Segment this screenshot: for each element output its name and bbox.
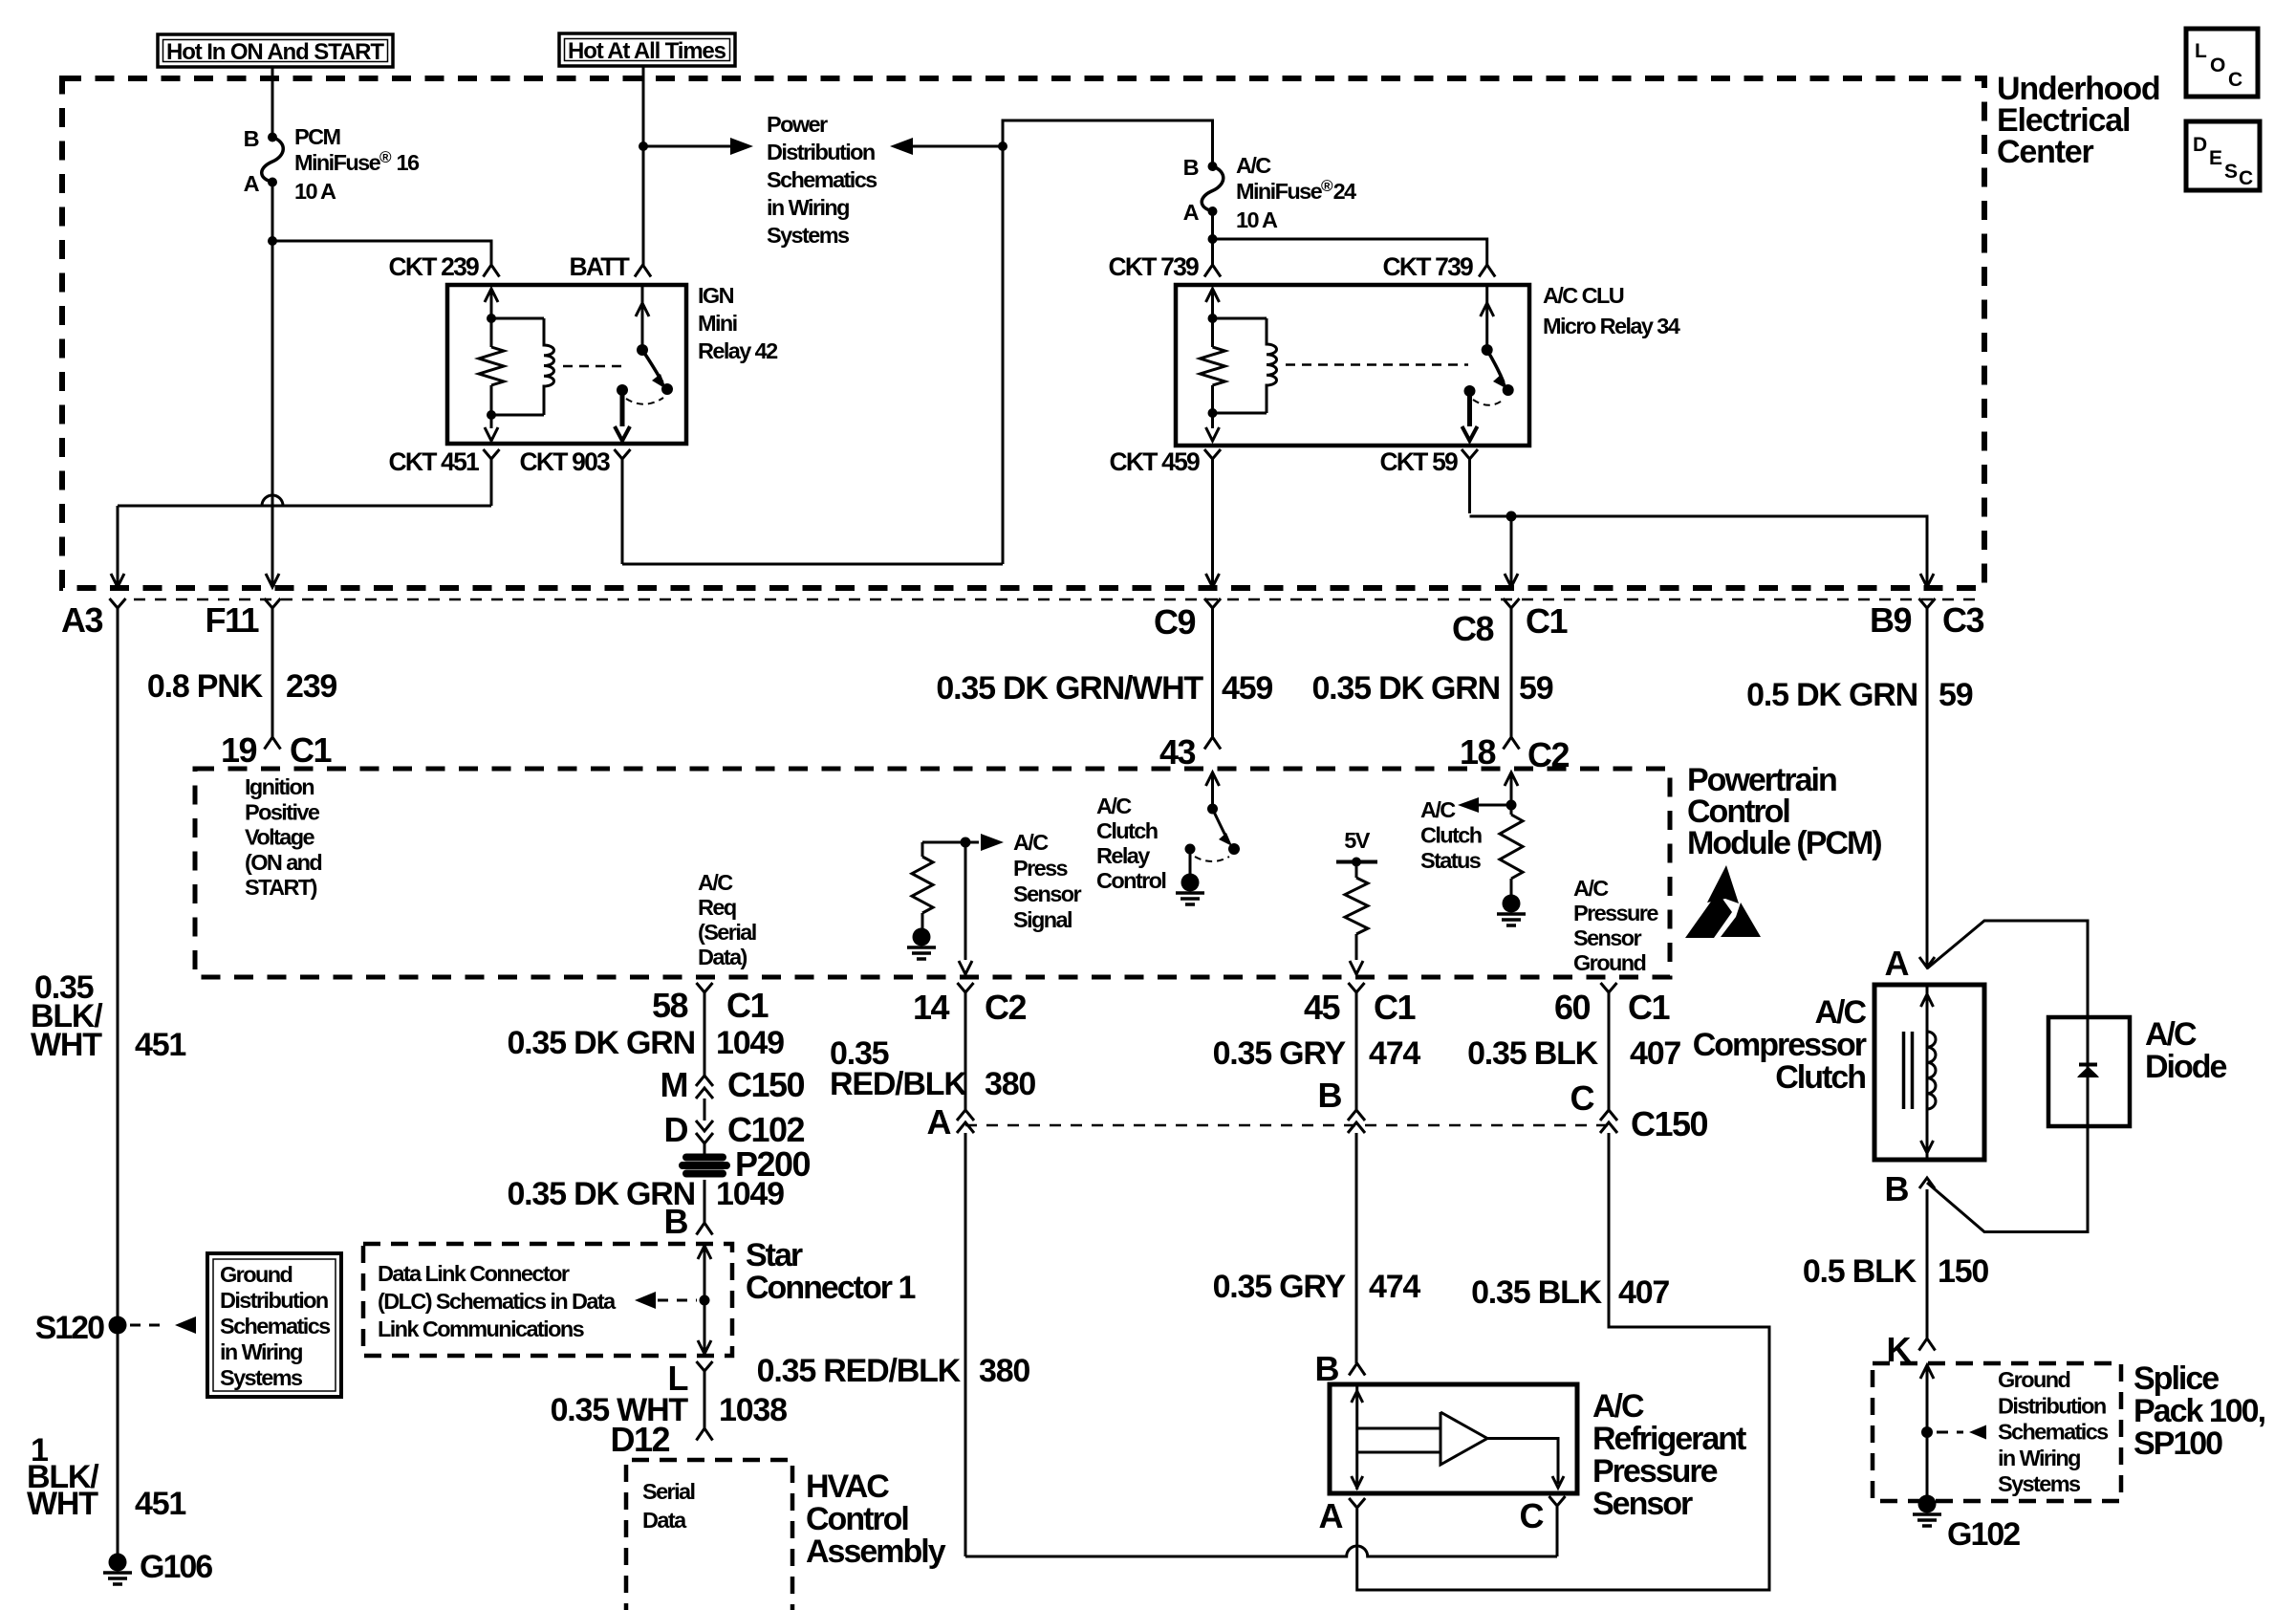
connector: CKT 459 (up-Y) <box>1204 449 1221 459</box>
dashed link: relay42 actuation <box>563 365 623 368</box>
wire: CKT59 across to B9 exit <box>1470 516 1928 585</box>
svg-text:451: 451 <box>135 1486 185 1522</box>
wire: fuse16 A down to junction <box>271 183 274 242</box>
svg-text:B9: B9 <box>1870 600 1911 640</box>
svg-text:A/C: A/C <box>1236 153 1271 178</box>
connector: clutch B junction <box>1919 1178 1935 1188</box>
connector: pin 14/C2 (up-Y) <box>958 983 974 992</box>
relay34 coil pin arrow up <box>1206 289 1220 302</box>
svg-text:Data Link Connector: Data Link Connector <box>378 1261 570 1286</box>
svg-text:45: 45 <box>1304 988 1341 1027</box>
svg-text:in Wiring: in Wiring <box>220 1339 302 1364</box>
svg-text:A/C: A/C <box>1814 994 1866 1031</box>
svg-text:(Serial: (Serial <box>698 920 756 945</box>
fuse F24 (A/C MiniFuse 24) element <box>1202 166 1224 211</box>
svg-text:474: 474 <box>1369 1035 1420 1072</box>
svg-text:407: 407 <box>1630 1035 1680 1072</box>
svg-text:Clutch: Clutch <box>1420 823 1482 848</box>
arrow: star up arrow <box>698 1246 711 1259</box>
arrow: 239 wire crossing UEC boundary <box>266 574 279 587</box>
svg-text:Center: Center <box>1997 134 2093 170</box>
svg-text:0.5 DK GRN: 0.5 DK GRN <box>1746 677 1917 713</box>
svg-text:0.8 PNK: 0.8 PNK <box>147 668 264 705</box>
node: relay42 switch pivot <box>637 344 648 356</box>
svg-text:E: E <box>2209 147 2222 169</box>
svg-text:43: 43 <box>1159 732 1196 772</box>
wire: CKT451 across to A3 exit (hop over 239 wire) <box>118 495 491 506</box>
connector: B star pin (down-Y) <box>697 1223 713 1235</box>
svg-text:Systems: Systems <box>767 223 850 248</box>
node: fuse 16 terminal B <box>268 133 277 142</box>
arrow: ground distribution reference (SP100) <box>1969 1425 1986 1440</box>
svg-text:B: B <box>1885 1169 1909 1208</box>
svg-text:L: L <box>2195 40 2207 62</box>
svg-text:5V: 5V <box>1344 828 1370 853</box>
arrow: 459 wire crossing UEC boundary <box>1206 574 1220 587</box>
connector: L (up-Y) <box>697 1361 713 1371</box>
wire: power-dist junction down to CKT903 link <box>1002 146 1005 564</box>
svg-text:A3: A3 <box>61 600 102 640</box>
relay34 switch common <box>1485 285 1488 350</box>
node: star splice <box>700 1295 710 1306</box>
svg-text:S: S <box>2224 161 2238 183</box>
PCM dashed box (Powertrain Control Module) <box>195 769 1670 977</box>
dashed arc: relay42 throw <box>626 398 663 404</box>
svg-text:A/C: A/C <box>1013 830 1049 855</box>
svg-text:C8: C8 <box>1452 609 1493 648</box>
svg-text:A: A <box>1885 944 1910 983</box>
svg-text:A/C: A/C <box>2145 1016 2197 1053</box>
svg-text:C1: C1 <box>1526 601 1568 641</box>
svg-text:CKT 459: CKT 459 <box>1110 447 1201 476</box>
svg-text:Distribution: Distribution <box>1998 1393 2106 1418</box>
ground: G106 <box>109 1554 127 1572</box>
svg-text:C1: C1 <box>726 986 769 1025</box>
svg-text:18: 18 <box>1460 732 1496 772</box>
diode D1 element <box>2087 1017 2090 1126</box>
relay42 coil out arrow down <box>490 415 493 428</box>
svg-text:(ON and: (ON and <box>245 850 321 875</box>
connector: F11 (up-Y) <box>265 598 281 608</box>
svg-text:Schematics: Schematics <box>767 167 877 192</box>
svg-text:Control: Control <box>806 1501 908 1537</box>
svg-text:58: 58 <box>652 986 688 1025</box>
arrow: 451 wire crossing UEC boundary <box>111 574 124 587</box>
svg-text:F11: F11 <box>205 600 259 640</box>
svg-text:PCM: PCM <box>294 124 339 149</box>
clutch internal wire <box>1926 985 1929 1160</box>
svg-text:0.35 DK GRN/WHT: 0.35 DK GRN/WHT <box>936 670 1203 707</box>
node: clutch relay fixed contact <box>1185 844 1196 855</box>
svg-text:CKT 739: CKT 739 <box>1109 252 1200 281</box>
clutch relay switch arm <box>1213 809 1228 839</box>
svg-text:459: 459 <box>1222 670 1272 707</box>
svg-text:Diode: Diode <box>2145 1049 2227 1085</box>
Underhood Electrical Center dashed box <box>62 78 1984 588</box>
fuse F16 (PCM MiniFuse 16) element <box>262 138 284 183</box>
arrow: clutch status up to pin 18 <box>1505 772 1518 786</box>
svg-text:0.35 RED/BLK: 0.35 RED/BLK <box>757 1353 962 1389</box>
svg-text:A/C: A/C <box>1592 1388 1644 1425</box>
svg-text:HVAC: HVAC <box>806 1469 889 1505</box>
svg-text:CKT 739: CKT 739 <box>1383 252 1474 281</box>
svg-text:CKT 903: CKT 903 <box>520 447 611 476</box>
svg-text:B: B <box>1318 1076 1342 1115</box>
connector: sensor C (up-Y) <box>1549 1496 1566 1506</box>
relay K34 box (A/C CLU Micro Relay 34) <box>1176 285 1529 446</box>
A/C Diode box <box>2048 1017 2130 1126</box>
amplifier: sensor op-amp <box>1440 1412 1487 1465</box>
wire: P200 to star connector <box>704 1180 706 1223</box>
svg-text:Relay: Relay <box>1096 843 1150 868</box>
svg-text:A: A <box>1183 200 1200 225</box>
svg-text:Micro Relay 34: Micro Relay 34 <box>1543 314 1680 338</box>
node: clutch relay switch pivot <box>1207 804 1218 815</box>
connector: 19/C1 pin (down-Y) <box>265 737 281 750</box>
svg-text:C1: C1 <box>1628 988 1670 1027</box>
svg-text:C: C <box>1570 1078 1595 1118</box>
node: relay42 switch moving contact <box>661 383 673 395</box>
connector: 18/C2 pin (down-Y) <box>1504 737 1520 750</box>
coil: relay34 winding <box>1213 317 1267 320</box>
svg-text:Ground: Ground <box>1998 1367 2069 1392</box>
wire: clutch B to splice pack K <box>1926 1189 1929 1338</box>
svg-text:A: A <box>244 171 260 196</box>
connector: C at C150 (double chevron) <box>1600 1110 1617 1120</box>
connector: C9 (up-Y) <box>1204 598 1221 608</box>
svg-text:380: 380 <box>985 1066 1035 1102</box>
ground: G102 <box>1918 1495 1937 1513</box>
svg-text:0.35 BLK: 0.35 BLK <box>1471 1274 1603 1311</box>
node: SP100 splice <box>1921 1426 1933 1438</box>
node: junction hot-at-all-times <box>639 141 648 151</box>
dashed link SP100 <box>1937 1431 1963 1434</box>
svg-text:59: 59 <box>1519 670 1553 707</box>
svg-text:MiniFuse®24: MiniFuse®24 <box>1236 177 1356 204</box>
svg-text:D12: D12 <box>610 1420 669 1459</box>
arrow: ground distribution reference (S120) <box>130 1324 168 1327</box>
A/C Compressor Clutch box <box>1874 985 1984 1160</box>
svg-text:Control: Control <box>1096 868 1165 893</box>
svg-text:0.5 BLK: 0.5 BLK <box>1803 1253 1917 1290</box>
svg-text:Clutch: Clutch <box>1096 818 1158 843</box>
dashed arc: clutch relay throw <box>1195 857 1229 861</box>
svg-text:1038: 1038 <box>719 1392 787 1428</box>
arrow: splice pack entry <box>1920 1365 1934 1379</box>
node: junction fuse24 output <box>1208 234 1218 244</box>
wire: press sensor signal node <box>922 841 965 844</box>
svg-text:Distribution: Distribution <box>767 140 875 164</box>
svg-text:Systems: Systems <box>220 1365 303 1390</box>
svg-text:451: 451 <box>135 1027 185 1063</box>
svg-text:Pack 100,: Pack 100, <box>2134 1393 2265 1429</box>
connector: D12 (down-Y) <box>697 1428 713 1441</box>
connector: CKT 903 (up-Y) <box>615 449 631 459</box>
UEC connector face line (thin dashed) <box>134 598 1979 601</box>
connector: C8 (up-Y) <box>1504 598 1520 608</box>
svg-text:Assembly: Assembly <box>806 1534 946 1570</box>
connector: A at C150 (double chevron) <box>957 1110 974 1120</box>
resistor: press sensor pull-up <box>921 842 924 857</box>
svg-text:G106: G106 <box>140 1549 212 1585</box>
node: 5V tap <box>1352 858 1361 867</box>
connector: sensor A (up-Y) <box>1349 1498 1365 1508</box>
wire: junction to CKT739 right pin <box>1213 239 1487 265</box>
svg-text:MiniFuse® 16: MiniFuse® 16 <box>294 148 420 175</box>
connector: CKT 451 (up-Y) <box>484 449 500 459</box>
wire: C8 branch drop <box>1510 516 1513 585</box>
connector: D/C102 (double chevron) <box>696 1120 713 1131</box>
svg-text:Press: Press <box>1013 856 1069 881</box>
svg-text:C: C <box>1520 1496 1545 1535</box>
wire: press signal to pin 14 <box>964 842 967 960</box>
power banner: Hot In ON And START <box>158 34 393 67</box>
connector: CKT 739 pin right (down-Y) <box>1479 265 1495 277</box>
svg-text:Systems: Systems <box>1998 1471 2081 1496</box>
svg-text:C1: C1 <box>1374 988 1416 1027</box>
relay34 output arrow down <box>1467 391 1472 426</box>
node: relay34 switch pivot <box>1482 344 1493 356</box>
node: press signal junction <box>961 838 971 848</box>
wire: star down <box>704 1300 706 1352</box>
svg-text:C2: C2 <box>985 988 1026 1027</box>
svg-text:Compressor: Compressor <box>1693 1027 1867 1063</box>
icon: ESD warning symbol <box>1707 865 1739 903</box>
svg-text:RED/BLK: RED/BLK <box>830 1066 967 1102</box>
connector: BATT pin (down-Y) <box>635 265 651 277</box>
svg-text:Power: Power <box>767 112 828 137</box>
svg-text:14: 14 <box>913 988 950 1027</box>
connector: A3 (up-Y) <box>110 598 126 608</box>
HVAC control assembly dashed box <box>626 1460 792 1610</box>
wire: diode branch bottom <box>1927 1126 2088 1232</box>
sensor output wire <box>1487 1439 1558 1485</box>
svg-text:C: C <box>2239 167 2253 189</box>
svg-text:A/C: A/C <box>1096 794 1132 818</box>
svg-text:SP100: SP100 <box>2134 1425 2222 1462</box>
node: relay42 coil top <box>487 314 496 323</box>
Ground Distribution reference box (S120) <box>207 1253 341 1397</box>
svg-text:Positive: Positive <box>245 799 320 824</box>
svg-text:Hot In ON And START: Hot In ON And START <box>166 39 384 65</box>
wire: CKT903 across to power-dist riser <box>622 563 1003 566</box>
svg-text:0.35 BLK: 0.35 BLK <box>1467 1035 1599 1072</box>
svg-text:A: A <box>1319 1496 1344 1535</box>
wire: SP100 to ground <box>1926 1432 1929 1495</box>
svg-text:Schematics: Schematics <box>1998 1420 2109 1445</box>
node: junction power-dist tap <box>998 141 1007 151</box>
svg-text:WHT: WHT <box>27 1486 98 1522</box>
splice pack dashed box <box>1873 1363 2121 1501</box>
svg-text:START): START) <box>245 875 317 900</box>
relay34 coil out arrow down <box>1211 413 1214 428</box>
svg-text:0.35 GRY: 0.35 GRY <box>1213 1269 1347 1305</box>
svg-text:C150: C150 <box>1631 1104 1708 1143</box>
svg-text:Signal: Signal <box>1013 907 1072 932</box>
svg-text:Sensor: Sensor <box>1013 881 1082 906</box>
node: clutch relay moving contact <box>1228 843 1240 855</box>
svg-text:Voltage: Voltage <box>245 825 314 850</box>
wire: serial to P200 <box>704 1143 706 1155</box>
svg-text:CKT 59: CKT 59 <box>1379 447 1458 476</box>
svg-text:0.35 DK GRN: 0.35 DK GRN <box>1311 670 1500 707</box>
svg-text:C102: C102 <box>727 1110 805 1149</box>
svg-text:407: 407 <box>1618 1274 1669 1311</box>
wire: junction to CKT 239 relay pin <box>272 241 491 265</box>
svg-text:380: 380 <box>979 1353 1029 1389</box>
clutch plates <box>1902 1032 1906 1109</box>
svg-text:Module (PCM): Module (PCM) <box>1687 825 1881 861</box>
svg-text:Ground: Ground <box>1573 950 1645 975</box>
node: fuse 24 terminal B <box>1208 162 1218 171</box>
svg-text:Sensor: Sensor <box>1592 1486 1693 1522</box>
svg-text:D: D <box>664 1110 688 1149</box>
ground: press sensor resistor ground <box>913 928 931 946</box>
wire: 474 wire to sensor B <box>1355 1133 1358 1363</box>
svg-text:Link Communications: Link Communications <box>378 1316 585 1341</box>
relay34 switch arm <box>1487 350 1504 382</box>
svg-text:Pressure: Pressure <box>1592 1453 1718 1490</box>
svg-text:10 A: 10 A <box>294 179 336 204</box>
svg-text:in Wiring: in Wiring <box>767 195 849 220</box>
svg-text:474: 474 <box>1369 1269 1420 1305</box>
svg-text:C9: C9 <box>1154 602 1195 642</box>
relay42 switch common from BATT <box>641 285 644 350</box>
arrow: to A/C Press Sensor Signal label <box>965 841 979 844</box>
node: clutch status node <box>1506 800 1517 811</box>
wire: fuse24 A to junction <box>1211 211 1214 239</box>
arrow: star down arrow <box>698 1340 711 1354</box>
power banner: Hot At All Times <box>559 33 735 66</box>
svg-text:A/C CLU: A/C CLU <box>1543 283 1624 308</box>
svg-text:Ground: Ground <box>220 1262 292 1287</box>
svg-text:S120: S120 <box>35 1310 104 1346</box>
node: junction 59/C8 tap <box>1506 511 1517 522</box>
connector: B at C150 (double chevron) <box>1348 1110 1365 1120</box>
svg-text:D: D <box>2193 134 2207 156</box>
wire: ignition feed down to F11 exit <box>271 241 274 585</box>
connector: pin 45/C1 (up-Y) <box>1349 983 1365 992</box>
node: junction fuse16 output <box>268 236 277 246</box>
wire: A3 drop to boundary <box>117 506 119 585</box>
svg-text:Distribution: Distribution <box>220 1288 328 1313</box>
resistor: clutch status pull <box>1510 805 1513 815</box>
C150 connector face line (thin dashed) <box>965 1124 1609 1127</box>
svg-text:60: 60 <box>1554 988 1591 1027</box>
svg-text:Hot At All Times: Hot At All Times <box>568 38 726 64</box>
connector: CKT 59 (up-Y) <box>1462 449 1478 459</box>
svg-text:C: C <box>2228 69 2242 91</box>
svg-text:in Wiring: in Wiring <box>1998 1446 2080 1470</box>
connector: K (down-Y) <box>1919 1338 1936 1351</box>
wire: 407 ground wire to sensor A <box>1357 1133 1769 1590</box>
node: fuse 16 terminal A <box>268 178 277 187</box>
svg-text:B: B <box>244 126 259 151</box>
connector: CKT 239 pin (down-Y) <box>484 265 500 277</box>
connector: B9/C3 (up-Y) <box>1919 598 1936 608</box>
wire: serial between C150 and C102 <box>704 1099 706 1120</box>
svg-text:Schematics: Schematics <box>220 1314 331 1338</box>
svg-text:C1: C1 <box>290 730 332 770</box>
svg-text:59: 59 <box>1939 677 1973 713</box>
svg-text:Ignition: Ignition <box>245 774 314 799</box>
svg-text:(DLC) Schematics in Data: (DLC) Schematics in Data <box>378 1289 617 1314</box>
svg-text:19: 19 <box>221 730 257 770</box>
arrow: pin14 wire at PCM boundary <box>959 961 972 974</box>
resistor: 45 pull-up <box>1355 862 1358 879</box>
svg-text:Refrigerant: Refrigerant <box>1592 1421 1746 1457</box>
5V supply bar <box>1336 860 1377 864</box>
svg-text:Clutch: Clutch <box>1775 1059 1865 1096</box>
connector: CKT 739 pin left (down-Y) <box>1211 239 1214 265</box>
node: relay42 coil bottom <box>487 410 496 420</box>
relay K42 box (IGN Mini Relay 42) <box>447 285 686 444</box>
relay42 output arrow down <box>620 390 625 426</box>
node: fuse 24 terminal A <box>1208 207 1218 216</box>
svg-text:CKT 451: CKT 451 <box>389 447 480 476</box>
wire: power-dist junction up/over to fuse 24 <box>1003 120 1213 166</box>
svg-text:1049: 1049 <box>716 1176 784 1212</box>
svg-text:150: 150 <box>1938 1253 1988 1290</box>
node: relay34 fixed contact <box>1464 385 1476 397</box>
sensor internal taps <box>1357 1427 1440 1430</box>
svg-text:Data: Data <box>642 1508 687 1533</box>
arrow: C8 branch crossing boundary <box>1505 574 1518 587</box>
arrow: clutch relay control up to pin 43 <box>1206 772 1220 786</box>
svg-text:A/C: A/C <box>1420 797 1456 822</box>
wire: Hot At All Times down to BATT pin <box>642 66 645 265</box>
svg-text:IGN: IGN <box>698 283 734 308</box>
dashed link: relay34 actuation <box>1286 363 1468 366</box>
svg-text:Status: Status <box>1420 848 1482 873</box>
DESC reference box <box>2186 121 2260 190</box>
svg-text:Mini: Mini <box>698 311 737 336</box>
svg-text:Data): Data) <box>698 945 747 969</box>
svg-text:Connector 1: Connector 1 <box>746 1270 915 1306</box>
resistor: relay42 parallel resistor <box>479 347 504 385</box>
relay42 coil pin arrow up <box>485 289 498 302</box>
svg-text:0.35 DK GRN: 0.35 DK GRN <box>507 1025 695 1061</box>
arrow: 59 wire crossing boundary <box>1920 574 1934 587</box>
connector: M/C150 (double chevron) <box>696 1076 713 1086</box>
svg-text:WHT: WHT <box>31 1027 102 1063</box>
connector: 43 pin (down-Y) <box>1204 737 1221 750</box>
connector: pin 58/C1 (up-Y) <box>697 983 713 992</box>
relay42 switch arm <box>642 350 662 382</box>
svg-text:0.35 GRY: 0.35 GRY <box>1213 1035 1347 1072</box>
svg-text:10 A: 10 A <box>1236 207 1278 232</box>
ground: clutch relay control ground <box>1181 874 1200 892</box>
node: relay34 coil top <box>1208 314 1218 323</box>
svg-text:CKT 239: CKT 239 <box>389 252 480 281</box>
svg-text:Relay 42: Relay 42 <box>698 338 778 363</box>
wire: diode branch top <box>1927 921 2088 1017</box>
coil: relay42 winding <box>491 317 544 320</box>
svg-text:M: M <box>661 1065 688 1104</box>
dashed arc: relay34 throw <box>1473 399 1505 405</box>
wire: 380 signal wire to sensor C (hop over A wire) <box>964 1133 967 1556</box>
arrow: DLC reference arrow <box>635 1292 656 1309</box>
sensor internal supply wire <box>1355 1384 1358 1490</box>
ground: clutch status ground <box>1503 895 1521 913</box>
coil: clutch coil winding <box>1927 1013 1936 1138</box>
svg-text:C3: C3 <box>1942 600 1983 640</box>
svg-text:Pressure: Pressure <box>1573 901 1658 925</box>
svg-text:A/C: A/C <box>1573 876 1609 901</box>
svg-text:1049: 1049 <box>716 1025 784 1061</box>
pass-through P200 <box>682 1154 726 1162</box>
LOC reference box <box>2186 29 2258 97</box>
